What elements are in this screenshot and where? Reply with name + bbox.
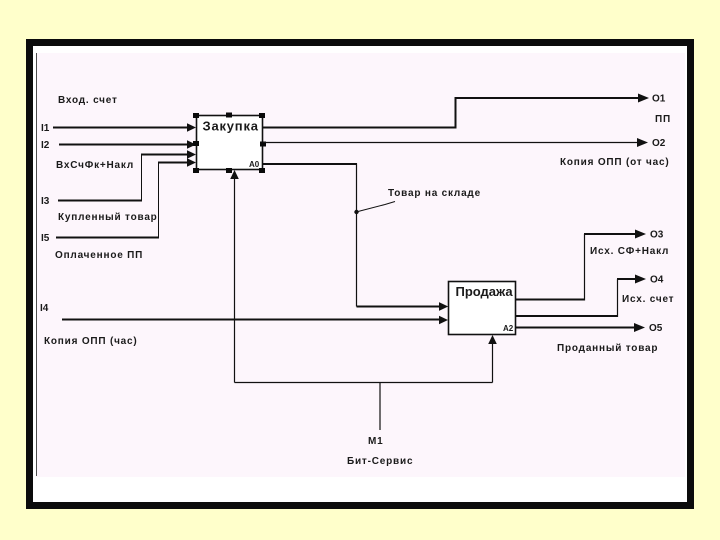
svg-text:Купленный товар: Купленный товар	[58, 212, 158, 223]
svg-text:O2: O2	[652, 138, 666, 149]
svg-text:I3: I3	[41, 196, 50, 207]
svg-text:I5: I5	[41, 233, 50, 244]
leader line to label	[358, 202, 395, 212]
svg-text:ПП: ПП	[655, 114, 671, 125]
svg-text:Копия ОПП (час): Копия ОПП (час)	[44, 336, 138, 347]
wire O4	[516, 275, 647, 318]
wire O5	[516, 323, 646, 332]
svg-text:O4: O4	[650, 275, 664, 286]
junction dot on Товар wire	[354, 210, 358, 214]
svg-text:Закупка: Закупка	[203, 119, 259, 134]
wire M1 mechanism	[235, 177, 493, 430]
svg-text:A0: A0	[249, 160, 260, 169]
wire I4	[62, 316, 448, 325]
svg-text:O1: O1	[652, 94, 666, 105]
svg-text:Копия ОПП (от час): Копия ОПП (от час)	[560, 157, 669, 168]
svg-text:Проданный товар: Проданный товар	[557, 343, 658, 354]
svg-text:Товар на складе: Товар на складе	[388, 188, 481, 199]
wire I3	[58, 150, 196, 201]
arrowhead M1 into Закупка bottom	[230, 170, 239, 179]
svg-text:O3: O3	[650, 230, 664, 241]
box Закупка A0	[197, 116, 263, 170]
svg-text:I1: I1	[41, 123, 50, 134]
svg-text:Бит-Сервис: Бит-Сервис	[347, 456, 413, 467]
arrowhead into Продажа left top	[439, 302, 448, 311]
svg-text:Вход. счет: Вход. счет	[58, 95, 118, 106]
diagram canvas background	[36, 53, 685, 477]
selection handles of box A0	[193, 113, 266, 174]
svg-text:Исх. СФ+Накл: Исх. СФ+Накл	[590, 246, 669, 257]
wire I1	[53, 123, 196, 132]
wire O1	[263, 94, 650, 128]
wire I2	[59, 140, 196, 149]
svg-text:I4: I4	[40, 303, 49, 314]
svg-text:ВхСчФк+Накл: ВхСчФк+Накл	[56, 160, 134, 171]
wire I5	[56, 158, 196, 238]
svg-text:A2: A2	[503, 324, 514, 333]
svg-text:I2: I2	[41, 140, 50, 151]
box Продажа A2	[449, 282, 516, 335]
wire O3	[516, 230, 647, 301]
svg-text:Продажа: Продажа	[456, 284, 514, 299]
svg-text:M1: M1	[368, 436, 384, 447]
wire O2	[263, 138, 648, 147]
wire Товар на складе	[263, 164, 449, 311]
svg-text:Оплаченное ПП: Оплаченное ПП	[55, 250, 143, 261]
svg-text:Исх. счет: Исх. счет	[622, 294, 674, 305]
svg-text:O5: O5	[649, 323, 663, 334]
arrowhead M1 into Продажа bottom	[488, 335, 497, 344]
canvas left edge line	[36, 53, 38, 476]
